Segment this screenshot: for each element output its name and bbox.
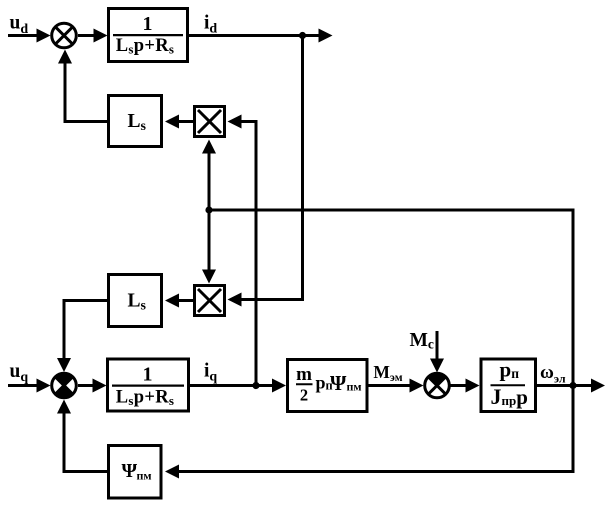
- svg-text:1: 1: [143, 13, 153, 35]
- multiplier M1: [195, 107, 225, 137]
- svg-text:Mэм: Mэм: [373, 362, 402, 384]
- wire M2 to Ls2: [165, 294, 193, 308]
- node omega branch: [205, 206, 212, 213]
- wire Ls1 to S1: [58, 50, 107, 122]
- wire M1 to Ls1: [165, 115, 193, 129]
- wire u_d input: [8, 29, 51, 43]
- svg-text:uq: uq: [10, 361, 29, 385]
- svg-text:1: 1: [143, 364, 153, 386]
- block Psi_pm: [109, 446, 162, 499]
- wire i_q output: [190, 379, 286, 393]
- wire S3 to W4: [450, 379, 480, 393]
- summing junction S1: [52, 23, 77, 48]
- wire Psi to S2: [57, 400, 107, 472]
- svg-text:пм: пм: [347, 380, 362, 394]
- wire S1 to d-axis block: [78, 29, 108, 43]
- svg-text:Ψ: Ψ: [330, 371, 347, 395]
- wire M_c input: [430, 331, 444, 373]
- block W1 1/(Lsp+Rs) d-axis: [109, 9, 188, 62]
- wire omega feedback to Psi block: [165, 386, 573, 479]
- wire omega to M1: [202, 140, 216, 211]
- wire i_d output: [189, 29, 333, 43]
- svg-text:2: 2: [300, 385, 308, 404]
- wire omega feedback to multipliers: [209, 210, 573, 386]
- svg-text:m: m: [296, 364, 312, 385]
- wire W3 to S3: [369, 379, 424, 393]
- block W3 (m/2)pnPsi: [288, 360, 368, 412]
- wire omega to M2: [202, 210, 216, 284]
- wire S2 to q-axis block: [78, 379, 107, 393]
- summing junction S3: [425, 373, 450, 398]
- svg-text:iq: iq: [204, 361, 217, 385]
- svg-text:Mc: Mc: [410, 330, 434, 352]
- block Ls2: [109, 275, 162, 327]
- node i_d: [299, 32, 306, 39]
- svg-text:ωэл: ωэл: [540, 362, 566, 386]
- wire Ls2 to S2: [57, 301, 107, 373]
- block Ls1: [109, 96, 162, 147]
- node omega: [569, 382, 576, 389]
- svg-text:Lsp+Rs: Lsp+Rs: [116, 36, 174, 57]
- svg-text:ud: ud: [10, 13, 29, 38]
- svg-text:Ψ: Ψ: [122, 460, 138, 482]
- summing junction S2: [52, 373, 77, 398]
- block W4 pn/(Jnp p): [481, 358, 536, 412]
- wire u_q input: [8, 379, 51, 393]
- svg-text:id: id: [204, 13, 217, 37]
- svg-text:пм: пм: [137, 469, 152, 483]
- node i_q: [252, 382, 259, 389]
- wire i_d to multiplier M2: [228, 36, 303, 307]
- block W2 1/(Lsp+Rs) q-axis: [108, 359, 189, 411]
- wire omega output: [537, 379, 605, 393]
- multiplier M2: [195, 286, 225, 316]
- svg-text:Lsp+Rs: Lsp+Rs: [116, 387, 174, 408]
- wire i_q to multiplier M1: [228, 115, 257, 386]
